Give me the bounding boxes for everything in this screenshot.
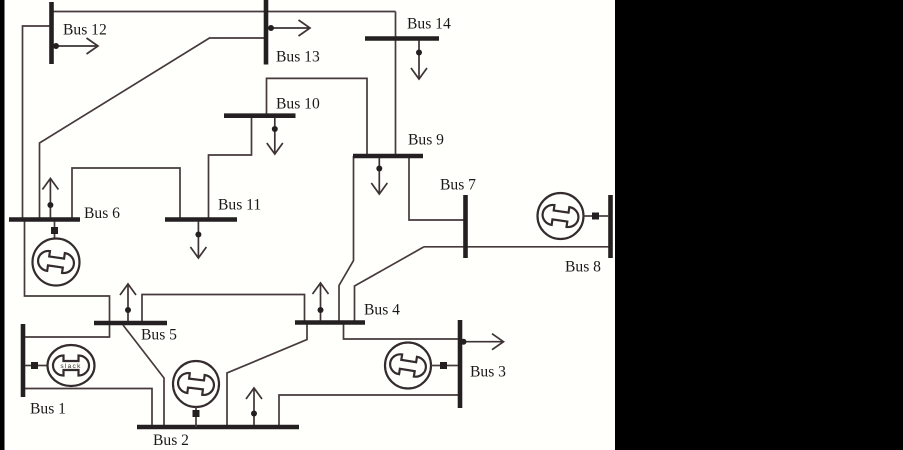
generator G2 at bus 2 <box>173 361 219 427</box>
wire line 1-2 <box>25 389 152 428</box>
wire line 6-13 <box>40 38 267 220</box>
generator G6 at bus 6 <box>33 222 80 286</box>
svg-text:slack: slack <box>60 363 81 370</box>
dot bus 14 arrow <box>416 50 422 56</box>
svg-text:Bus 2: Bus 2 <box>153 432 189 449</box>
load arrow bus 5 up <box>120 284 136 321</box>
svg-text:Bus 11: Bus 11 <box>218 197 261 214</box>
svg-text:Bus 7: Bus 7 <box>440 177 476 194</box>
wire line 12-13-14 top <box>52 11 396 13</box>
svg-text:Bus 13: Bus 13 <box>276 49 320 66</box>
bus 4 bar <box>295 320 365 325</box>
bus 2 bar <box>137 425 299 430</box>
svg-text:Bus 3: Bus 3 <box>470 364 506 381</box>
dot bus 2 arrow <box>251 411 257 417</box>
dot bus 4 arrow <box>318 307 324 313</box>
dot bus 3 arrow <box>461 339 467 345</box>
load arrow bus 11 down <box>190 222 206 259</box>
load arrows <box>42 20 503 425</box>
wire line 10-11 <box>209 116 252 220</box>
svg-text:Bus 5: Bus 5 <box>141 327 177 344</box>
wire line 6-11 <box>72 168 180 220</box>
wire line 6-12 <box>23 26 52 220</box>
load arrow bus 10 down <box>267 118 283 155</box>
svg-text:Bus 14: Bus 14 <box>407 16 451 33</box>
wire line 3-4 <box>344 323 461 340</box>
bus 5 bar <box>94 321 167 326</box>
wire line 4-9 transformer <box>339 156 354 323</box>
generator G1 slack at bus 1 <box>25 345 95 386</box>
bus 7 bar <box>463 195 468 258</box>
dot bus 10 arrow <box>272 126 278 132</box>
load arrow bus 2 up <box>246 388 262 425</box>
wire line 14-9 vertical <box>395 12 397 157</box>
dot bus 13 arrow <box>268 25 274 31</box>
load arrow bus 14 down <box>411 41 427 80</box>
bus 1 bar <box>21 324 26 397</box>
svg-text:Bus 4: Bus 4 <box>364 302 400 319</box>
load arrow bus 9 down <box>371 158 387 194</box>
bus 3 bar <box>458 320 463 408</box>
bus 8 bar <box>608 195 613 258</box>
bus 9 bar <box>353 154 423 159</box>
svg-text:Bus 10: Bus 10 <box>276 96 320 113</box>
bus 14 bar <box>365 36 439 41</box>
dot bus 11 arrow <box>195 232 201 238</box>
svg-text:Bus 1: Bus 1 <box>30 401 66 418</box>
load arrow bus 13 <box>268 20 310 36</box>
load arrow bus 6 up <box>42 179 58 218</box>
wire line 7-9 <box>409 156 466 220</box>
wire line 1-5 <box>25 323 110 337</box>
dot bus 9 arrow <box>376 166 382 172</box>
bus 12 bar <box>49 2 54 64</box>
wire line 2-3 <box>279 395 460 427</box>
black right margin <box>615 0 903 450</box>
generator G3 at bus 3 <box>385 343 458 389</box>
svg-text:Bus 12: Bus 12 <box>63 22 107 39</box>
bus 11 bar <box>165 217 237 222</box>
black left edge stripe <box>0 0 5 450</box>
svg-text:Bus 8: Bus 8 <box>565 259 601 276</box>
generator G8 at bus 8 <box>538 193 610 239</box>
wire line 2-5 <box>123 325 164 427</box>
dot bus 12 arrow <box>53 43 59 49</box>
load arrow bus 3 <box>462 334 504 350</box>
bus 6 bar <box>9 217 80 222</box>
wire line 9-10 <box>267 78 368 156</box>
wire line 2-4 <box>227 323 307 428</box>
wire line 4-7 transformer <box>355 247 425 323</box>
svg-text:Bus 9: Bus 9 <box>408 132 444 149</box>
wire line 7-8 horizontal <box>424 246 611 248</box>
dot bus 5 arrow <box>125 307 131 313</box>
svg-text:Bus 6: Bus 6 <box>84 205 120 222</box>
load arrow bus 4 up <box>313 283 329 321</box>
wire line 5-6 transformer <box>25 220 110 324</box>
dot bus 6 arrow <box>47 202 53 208</box>
load arrow bus 12 <box>54 38 99 54</box>
wire line 4-5 <box>142 295 305 324</box>
bus 13 bar <box>264 0 269 65</box>
bus 10 bar <box>224 113 296 118</box>
